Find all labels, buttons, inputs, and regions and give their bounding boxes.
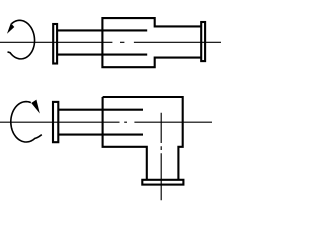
flange (bottom-left collar) <box>53 102 58 142</box>
rotation arrow (bottom) <box>11 102 42 142</box>
flange (top-right) <box>201 22 205 61</box>
shaft lines (bottom) <box>58 110 143 135</box>
foot flange (bottom) <box>142 180 183 185</box>
vertical centerline (leg axis) <box>160 113 162 201</box>
centerline (top axis) <box>0 41 221 43</box>
centerline (bottom axis) <box>0 121 212 123</box>
arrowhead (bottom rotation arrow) <box>31 100 40 114</box>
flange (top-left collar) <box>53 24 57 64</box>
rotation arrow (top) <box>8 20 35 59</box>
arrowhead (top rotation arrow) <box>7 23 14 34</box>
housing body with leg (bottom) <box>103 97 183 180</box>
housing body (top) <box>102 18 201 67</box>
shaft lines (top) <box>57 30 147 54</box>
